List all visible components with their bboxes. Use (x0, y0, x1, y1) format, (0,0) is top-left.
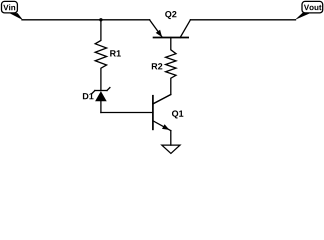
transistor Q2 (PNP) (150, 20, 191, 38)
ground symbol (162, 145, 180, 153)
wire D1 to Q1 base (101, 112, 153, 114)
label Q1 (172, 110, 183, 118)
resistor R2 (166, 38, 176, 95)
net flag Vout (295, 1, 323, 20)
wire Q1 emitter to ground (170, 131, 172, 146)
label Q2 (165, 11, 176, 19)
resistor R1 (95, 20, 106, 91)
wire Q2 collector to Vout (190, 19, 295, 21)
transistor Q1 (NPN) (153, 95, 171, 131)
diode D1 (zener) (92, 88, 110, 113)
label R2 (152, 63, 163, 69)
wire R2 to Q1 collector (153, 95, 171, 105)
label R1 (110, 50, 121, 56)
label D1 (83, 93, 94, 99)
net flag Vin (2, 1, 24, 20)
wire Vin to Q2 emitter (22, 19, 150, 21)
junction node at R1 top (99, 18, 102, 21)
